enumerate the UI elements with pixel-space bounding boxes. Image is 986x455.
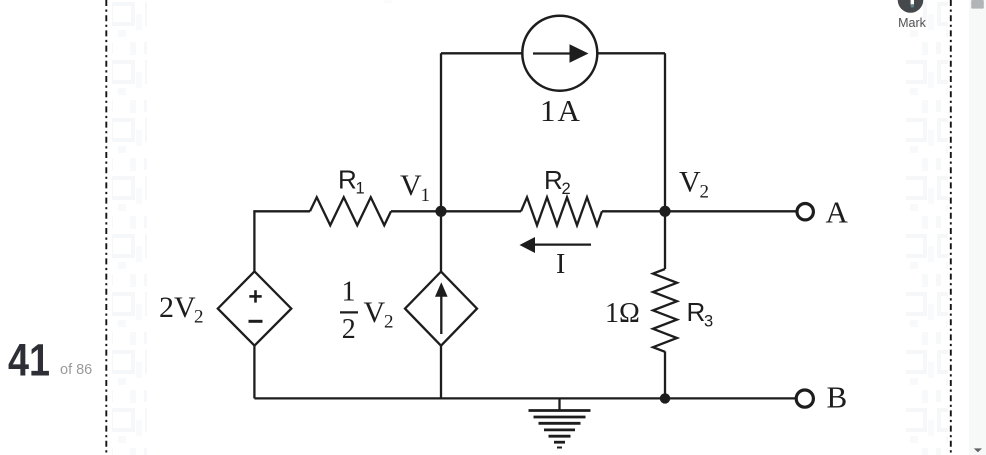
svg-text:R: R [687, 297, 706, 327]
wire V1 to dependent source [440, 211, 442, 271]
dependent current source 1/2 V2 [405, 272, 477, 346]
current arrow I [520, 237, 592, 253]
svg-text:A: A [826, 195, 849, 230]
label R2 [544, 165, 571, 198]
question number 41 of 86 [8, 335, 92, 386]
junction bottom right [660, 393, 670, 403]
resistor R1 [310, 197, 391, 225]
label 2V2 [159, 291, 204, 328]
wire left vertical [440, 53, 442, 211]
wire middle left [254, 211, 310, 271]
ground [529, 398, 591, 447]
svg-text:1: 1 [421, 185, 431, 206]
svg-text:1A: 1A [540, 93, 582, 128]
svg-text:3: 3 [704, 313, 713, 331]
wire middle center [391, 210, 521, 212]
resistor R3 [653, 269, 677, 352]
svg-text:1Ω: 1Ω [605, 298, 640, 329]
svg-text:V: V [400, 169, 422, 202]
node V1 [435, 206, 446, 217]
svg-text:of 86: of 86 [60, 362, 92, 378]
wire to terminal A [602, 210, 796, 212]
label 1/2 V2 [340, 277, 394, 346]
current source 1A [522, 16, 597, 91]
svg-text:R: R [338, 165, 357, 195]
terminal A [797, 204, 813, 220]
svg-text:1: 1 [356, 180, 365, 198]
wire below R3 [664, 351, 666, 398]
svg-text:V: V [679, 166, 701, 199]
svg-text:1: 1 [342, 277, 356, 308]
resistor R2 [521, 197, 602, 225]
svg-text:41: 41 [8, 335, 50, 386]
svg-text:B: B [827, 380, 848, 415]
label V1 [400, 169, 430, 206]
svg-text:V: V [364, 296, 386, 329]
label R1 [338, 165, 365, 198]
wire right vertical [664, 53, 666, 211]
svg-text:2: 2 [562, 180, 571, 198]
svg-text:I: I [556, 249, 565, 280]
svg-text:R: R [544, 165, 563, 195]
dependent voltage source 2V2 [218, 271, 291, 345]
wire V2 to R3 [664, 211, 666, 269]
label R3 [687, 297, 714, 331]
wire bottom rail [254, 397, 796, 399]
svg-text:Mark: Mark [898, 16, 927, 30]
svg-text:2V: 2V [159, 291, 196, 324]
svg-text:2: 2 [342, 314, 356, 345]
wire top left [441, 52, 523, 54]
svg-text:2: 2 [384, 312, 394, 333]
node V2 [659, 206, 670, 217]
wire below 1/2 V2 [440, 346, 442, 399]
label V2 [679, 166, 709, 203]
wire below 2V2 [253, 346, 255, 399]
wire top right [597, 52, 665, 54]
mark button [898, 0, 927, 30]
svg-text:2: 2 [700, 182, 710, 203]
svg-text:2: 2 [194, 307, 204, 328]
terminal B [796, 390, 813, 407]
